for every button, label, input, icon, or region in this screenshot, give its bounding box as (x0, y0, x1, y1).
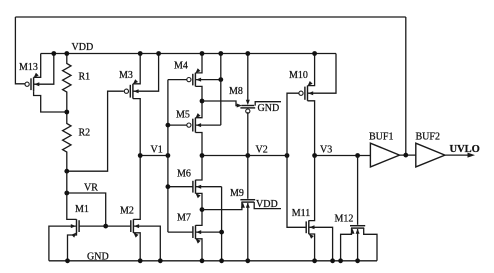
wire: M11 source to GND rail (309, 234, 315, 261)
node V3 left junction (312, 153, 317, 158)
node: M4 source at VDD rail (200, 51, 205, 56)
wire: M13 source to VDD rail left end (34, 54, 41, 78)
wire: M4/M5 bulk column from VDD rail (220, 54, 222, 126)
wire: M5 drain down to V2 (195, 133, 202, 156)
svg-text:M4: M4 (174, 61, 188, 72)
wire: M8 gate (bubble) down to V2 (247, 112, 249, 155)
wire: divider tap to M3 gate (67, 91, 124, 171)
wire: M8 left S/D to M4/M5 node (202, 101, 240, 106)
transistor M12 (NMOS capacitor, rotated) (350, 226, 365, 234)
transistor M4 (PMOS) (187, 68, 201, 86)
svg-text:M12: M12 (335, 214, 354, 225)
svg-text:M7: M7 (177, 213, 191, 224)
wire: M7 gate from gate column end (168, 231, 193, 233)
wire: M6 gate from gate column (168, 186, 193, 188)
wire: M12 right S/D to GND rail right end (364, 228, 377, 261)
wire: M8 bulk from VDD rail (247, 54, 249, 102)
svg-text:M5: M5 (176, 110, 190, 121)
wire: M4 gate from gate column (168, 79, 187, 81)
wire: M12 bulk down to GND rail (357, 229, 359, 261)
svg-text:M13: M13 (19, 62, 38, 73)
svg-text:M2: M2 (120, 206, 134, 217)
wire: M2 bulk to GND rail (133, 226, 160, 261)
node: M1 source at GND rail (65, 258, 70, 263)
node: M11 source at GND rail (312, 258, 317, 263)
transistor M1 (NMOS, mirrored) (71, 219, 79, 237)
svg-text:GND: GND (87, 251, 109, 262)
svg-text:M8: M8 (229, 86, 243, 97)
wire: M3 drain down to V1 (133, 99, 140, 156)
resistor R2 (63, 112, 71, 171)
wire: M13 drain to R1/R2 midpoint (34, 91, 67, 112)
node: M2 source at GND rail (138, 258, 143, 263)
svg-text:R2: R2 (79, 128, 91, 139)
wire: VR node to M1/M2 gates (67, 193, 106, 226)
wire: M7 bulk to bulk column (196, 231, 222, 233)
wire: M12 left S/D to GND rail (341, 228, 352, 261)
wire: VR column down to M1 drain (67, 171, 77, 219)
svg-text:V1: V1 (151, 144, 163, 155)
transistor M5 (PMOS) (187, 113, 201, 132)
transistor M7 (NMOS) (193, 225, 201, 243)
wire: M4 source to VDD rail (195, 54, 202, 73)
svg-text:V3: V3 (320, 144, 332, 155)
transistor M8 (PMOS, rotated) (237, 100, 256, 113)
wire: M9 gate up to V2 (247, 156, 249, 199)
wire: M6 drain up to V2 (196, 156, 203, 181)
node: M12 bulk at GND rail (355, 258, 360, 263)
wire: M2 drain up to V1 (133, 156, 140, 220)
wire: M10 source to VDD rail (308, 54, 315, 86)
node: buffer junction (feedback tap) (403, 153, 408, 158)
node V3 M12-gate junction (355, 153, 360, 158)
wire: M7 drain up to mid node (196, 210, 203, 226)
wire: M10 drain down to V3 (308, 101, 315, 156)
node: M3 bulk at VDD rail (156, 51, 161, 56)
node VR junction (64, 191, 69, 196)
svg-text:V2: V2 (256, 144, 268, 155)
node V1 right junction (166, 153, 171, 158)
wire: M10 bulk to VDD rail right end (308, 54, 337, 94)
wire: M8 right S/D to GND stub (255, 102, 281, 106)
svg-text:UVLO: UVLO (450, 144, 480, 155)
svg-text:VR: VR (84, 183, 98, 194)
node V1 left junction (138, 153, 143, 158)
node: M8 bulk at VDD rail (245, 51, 250, 56)
wire: M1 source to GND rail (68, 233, 77, 261)
wire: M12 gate up to V3 (357, 156, 359, 225)
wire: M3 source to VDD rail (133, 54, 140, 84)
node V2 left junction (200, 153, 205, 158)
svg-text:M3: M3 (119, 70, 133, 81)
transistor M13 (PMOS) (25, 73, 39, 91)
wire: node V1 (140, 155, 168, 157)
wire: M11 bulk to GND rail (309, 227, 333, 260)
wire: M5 bulk to bulk column (195, 124, 220, 126)
node: divider tap junction upper (64, 169, 69, 174)
wire: UVLO output with arrow (445, 154, 472, 156)
node: M6 source / M7 drain junction (200, 207, 205, 212)
node: M10 source at VDD rail (312, 51, 317, 56)
transistor M9 (NMOS, rotated) (240, 200, 255, 208)
wire: M13 bulk to VDD rail (34, 54, 54, 85)
node: R1/R2 midpoint junction (64, 110, 69, 115)
wire: right vertical from top line down to buffer junction (405, 17, 407, 155)
wire: M10 gate down to V2 (287, 93, 299, 155)
transistor M10 (PMOS) (299, 81, 313, 101)
transistor M2 (NMOS) (131, 219, 139, 237)
wire: M5 gate from gate column (168, 124, 187, 126)
wire: M6 source down to mid node (196, 193, 203, 209)
wire: left vertical to M13 gate (15, 17, 25, 84)
node: M3 source at VDD rail (138, 51, 143, 56)
resistor R1 (63, 54, 71, 113)
wire: M9 left S/D to M6/M7 node (202, 202, 242, 210)
node: M11 bulk at GND rail (330, 258, 335, 263)
svg-text:M10: M10 (289, 70, 308, 81)
wire: M4 drain down to M5 junction (195, 86, 202, 101)
wire: node V3 to BUF1 input (315, 155, 371, 157)
transistor M6 (NMOS) (193, 180, 201, 198)
node: M7 bulk junction (219, 230, 224, 235)
wire: top feedback line from M13 gate to BUF1 output (15, 16, 405, 18)
wire: gate column M4/M5/M6/M7 (167, 80, 169, 233)
transistor M3 (PMOS) (124, 79, 138, 98)
wire: M1 gate to common gate node (79, 225, 106, 227)
svg-text:GND: GND (258, 103, 280, 114)
svg-text:M1: M1 (75, 204, 89, 215)
wire: M9 bulk down to GND rail (247, 203, 249, 261)
wire: GND rail (49, 260, 377, 262)
node: M12 left S/D at GND rail (338, 258, 343, 263)
node: VDD rail junction M13 bulk (51, 51, 56, 56)
wire: M4 bulk to bulk column (195, 79, 220, 81)
node: M4 bulk junction (218, 77, 223, 82)
wire: M3 bulk to VDD rail (133, 54, 159, 92)
wire: M2 gate from common gate node (106, 225, 131, 227)
node: bulk column at VDD rail (218, 51, 223, 56)
wire: M11 gate from V2 (287, 156, 306, 228)
node: M6 gate junction (166, 184, 171, 189)
svg-text:BUF2: BUF2 (416, 132, 440, 143)
wire: VDD rail (41, 53, 336, 55)
node V2 middle junction (M8/M9 gates) (245, 153, 250, 158)
node: M6/M7 bulk at GND rail (219, 258, 224, 263)
wire: M1 bulk to GND rail left end (49, 226, 77, 261)
node: VDD rail junction R1 (64, 51, 69, 56)
svg-text:R1: R1 (79, 72, 91, 83)
svg-text:M6: M6 (177, 169, 191, 180)
wire: M6/M7 bulk column to GND rail (221, 187, 223, 261)
svg-text:BUF1: BUF1 (369, 132, 393, 143)
node: M7 source at GND rail (200, 258, 205, 263)
svg-text:VDD: VDD (256, 199, 278, 210)
node: M4 drain / M5 source junction (200, 99, 205, 104)
svg-text:VDD: VDD (72, 42, 94, 53)
wire: M11 drain up to V3 (309, 156, 315, 221)
wire: M7 source to GND rail (196, 239, 203, 261)
wire: M6 bulk to bulk column (196, 186, 222, 188)
node: M2 bulk at GND rail (158, 258, 163, 263)
wire: M5 source up to M4/M5 node (195, 101, 202, 118)
wire: node V2 (202, 155, 287, 157)
node: M9 bulk at GND rail (245, 258, 250, 263)
node: M1/M2 gate junction (103, 224, 108, 229)
wire: M9 right S/D to VDD stub (254, 202, 281, 209)
node V2 right junction (285, 153, 290, 158)
buffer BUF1 (370, 143, 399, 167)
wire: BUF1 output to BUF2 input (400, 154, 416, 156)
node: M5 gate junction (166, 123, 171, 128)
wire: M2 source to GND rail (133, 233, 140, 261)
svg-text:M9: M9 (230, 188, 244, 199)
svg-text:M11: M11 (292, 208, 311, 219)
transistor M11 (NMOS) (306, 220, 314, 238)
buffer BUF2 (416, 143, 445, 167)
